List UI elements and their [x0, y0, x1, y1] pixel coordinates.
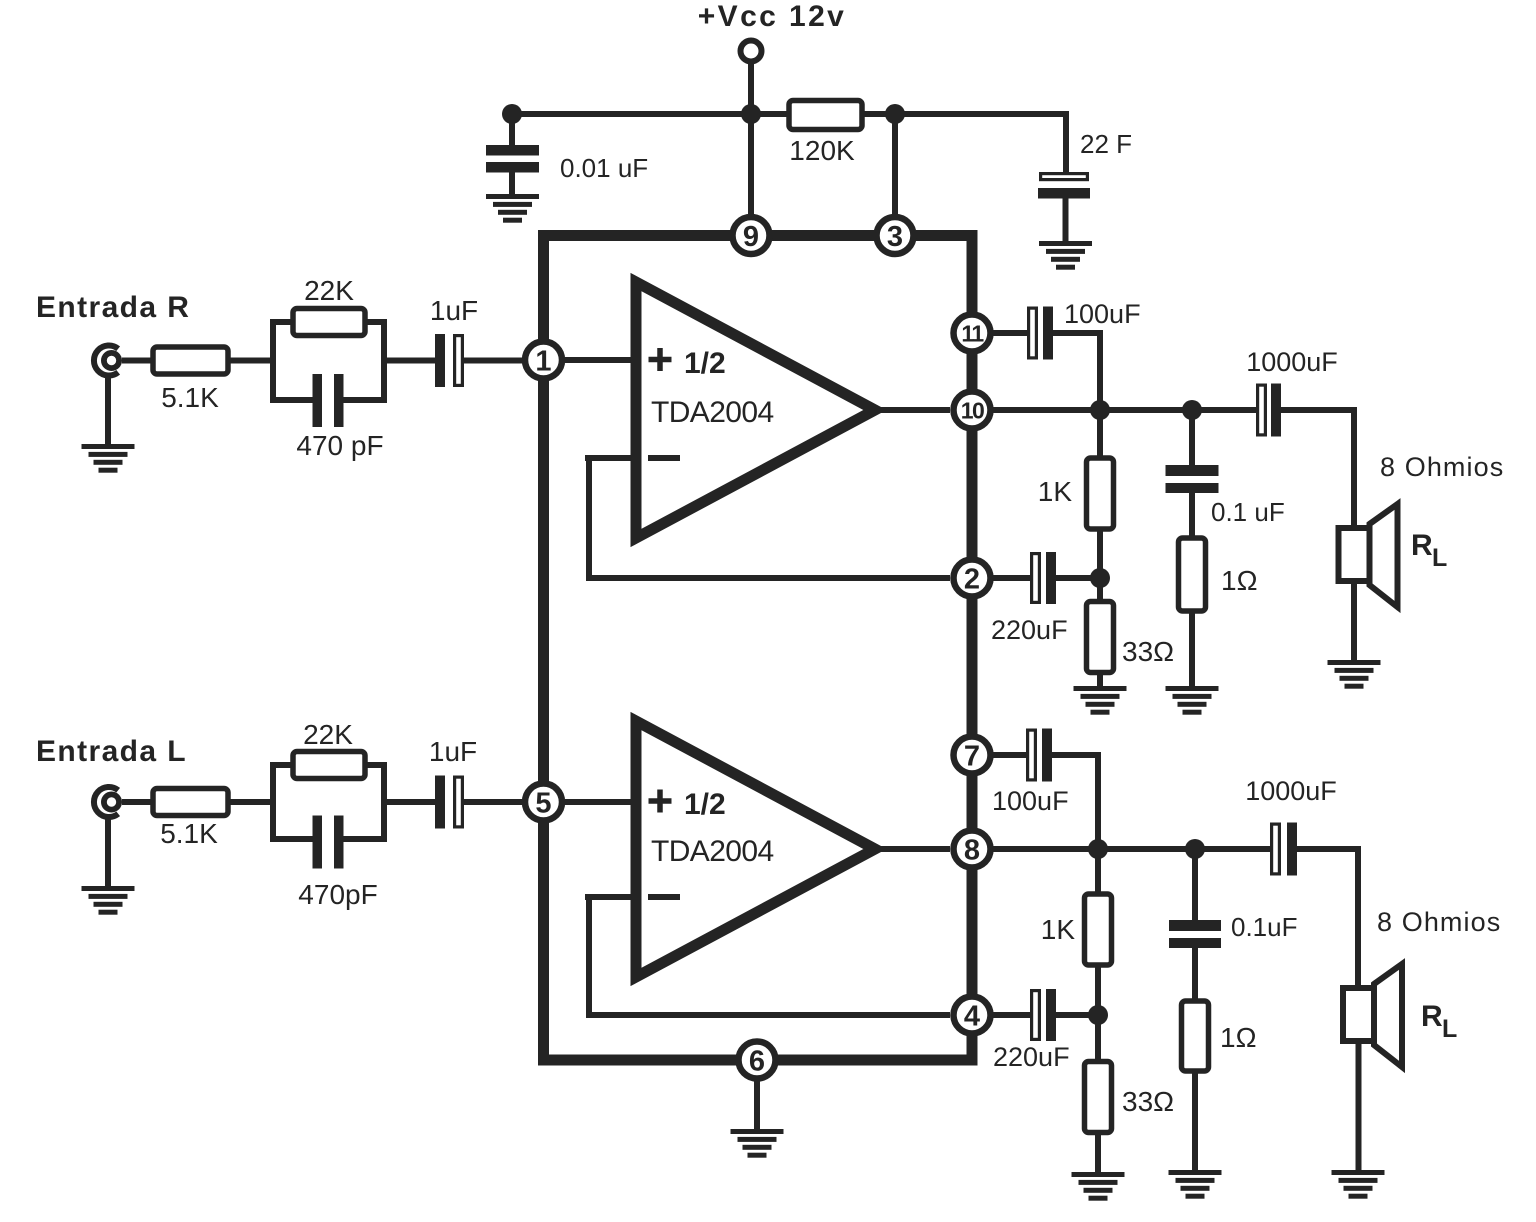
wire 100uF to corner: [1053, 330, 1100, 336]
wire 5.1K to RC block: [228, 358, 276, 364]
svg-text:1000uF: 1000uF: [1245, 776, 1337, 806]
svg-text:10: 10: [961, 398, 984, 424]
svg-text:R: R: [1411, 529, 1433, 562]
wire pin 4 to 220uF: [990, 1012, 1033, 1018]
pin 5: [525, 784, 562, 821]
svg-text:220uF: 220uF: [991, 615, 1068, 645]
op-amp U1b triangle: [636, 721, 875, 977]
junction pin8-100uF/1K: [1088, 839, 1108, 859]
resistor 33ohm (upper): [1087, 578, 1114, 690]
pin 2: [954, 560, 991, 597]
resistor 5.1K (R): [153, 347, 228, 374]
op-amp U1a triangle: [636, 282, 875, 538]
wire 100uF to corner (lower): [1052, 752, 1098, 758]
wire to pin 9: [748, 114, 754, 222]
svg-text:5: 5: [535, 788, 551, 820]
capacitor 1uF (L): [435, 776, 462, 829]
wire corner down to output node: [1097, 330, 1103, 410]
svg-text:7: 7: [964, 741, 980, 773]
capacitor 0.1uF (lower): [1169, 920, 1221, 948]
capacitor 470pF (L): [313, 816, 344, 869]
wire RCA-L to 5.1K: [122, 799, 155, 805]
wire RCA-R to 5.1K: [122, 358, 155, 364]
capacitor 0.1uF (upper): [1166, 465, 1219, 493]
op-amp plus sign U1a: [649, 348, 672, 371]
wire block to 1uF (R): [384, 358, 435, 364]
node RC block right bar (L): [381, 762, 387, 842]
wire top rail right (R): [360, 319, 384, 325]
svg-text:0.1uF: 0.1uF: [1231, 912, 1298, 942]
wire 0.1uF to 1ohm (lower): [1192, 945, 1198, 1003]
wire pin5 to op-amp: [562, 799, 636, 805]
pin 7: [954, 737, 991, 774]
wire corner down to pin8 row: [1095, 752, 1101, 849]
resistor 22K (L): [293, 752, 365, 779]
ground speaker (upper): [1328, 660, 1381, 689]
svg-text:470 pF: 470 pF: [296, 430, 383, 461]
wire pin8 node to 0.1uF (lower): [1192, 849, 1198, 922]
wire top rail right (L): [360, 762, 384, 768]
wire minus input U1a: [585, 455, 631, 461]
wire 1000uF to speaker corner: [1281, 407, 1357, 413]
svg-text:470pF: 470pF: [298, 879, 377, 910]
pin 11: [954, 315, 991, 352]
ground 33ohm (upper): [1074, 686, 1127, 715]
wire RCA-R down: [105, 375, 111, 446]
ground speaker (lower): [1332, 1170, 1385, 1199]
svg-text:2: 2: [964, 564, 980, 596]
wire feedback vertical U1a: [586, 455, 592, 581]
svg-text:120K: 120K: [789, 135, 855, 166]
wire pin 6 to ground: [754, 1078, 760, 1131]
ground 22F: [1039, 241, 1092, 270]
ground RCA R: [82, 444, 135, 473]
wire 220uF to junction: [1056, 575, 1100, 581]
ground 1ohm (upper): [1166, 686, 1219, 715]
node RC block left bar (R): [270, 319, 276, 403]
wire block to 1uF (L): [384, 799, 435, 805]
wire minus input U1b: [585, 894, 631, 900]
wire down to speaker (upper): [1351, 407, 1357, 528]
wire RCA-L down: [105, 817, 111, 888]
wire output node to 0.1uF: [1189, 410, 1195, 467]
resistor 1ohm (lower): [1182, 1001, 1209, 1071]
wire 1uF to pin 1: [463, 358, 543, 364]
op-amp plus sign U1b: [649, 790, 672, 813]
wire pin 7 to 100uF: [990, 752, 1029, 758]
svg-text:1/2: 1/2: [684, 788, 726, 821]
svg-text:22K: 22K: [304, 275, 354, 306]
wire to pin 3: [892, 114, 898, 222]
svg-text:1Ω: 1Ω: [1220, 1022, 1257, 1053]
wire output U1b to pin 8: [875, 846, 950, 852]
power terminal +Vcc: [741, 41, 762, 62]
wire 220uF to junction (lower): [1056, 1012, 1098, 1018]
op-amp minus sign U1a: [648, 455, 680, 461]
svg-text:0.1 uF: 0.1 uF: [1211, 497, 1285, 527]
wire 5.1K to RC block (L): [228, 799, 276, 805]
RCA connector R: [94, 346, 119, 376]
resistor 1K (lower): [1085, 849, 1112, 1018]
wire bottom rail right (L): [341, 836, 384, 842]
junction pin2-1K-33ohm: [1090, 568, 1110, 588]
svg-text:100uF: 100uF: [992, 786, 1069, 816]
ground 1ohm (lower): [1169, 1170, 1222, 1199]
junction bus-0.01uF: [502, 104, 522, 124]
ground 0.01uF: [486, 194, 539, 223]
svg-text:6: 6: [749, 1046, 765, 1078]
wire feedback to pin 2: [589, 575, 950, 581]
svg-text:1Ω: 1Ω: [1221, 565, 1258, 596]
svg-text:1000uF: 1000uF: [1246, 347, 1338, 377]
svg-text:8: 8: [964, 835, 980, 867]
junction bus-pin9: [741, 104, 761, 124]
junction output-0.1uF: [1182, 400, 1202, 420]
svg-text:1K: 1K: [1041, 914, 1076, 945]
IC TDA2004 boundary box: [544, 236, 973, 1061]
svg-text:1K: 1K: [1038, 476, 1073, 507]
svg-text:8 Ohmios: 8 Ohmios: [1377, 907, 1501, 937]
node RC block right bar (R): [381, 319, 387, 403]
svg-text:8 Ohmios: 8 Ohmios: [1380, 452, 1504, 482]
junction bus-pin3: [885, 104, 905, 124]
svg-text:5.1K: 5.1K: [160, 818, 218, 849]
speaker RL (lower): [1343, 964, 1402, 1067]
svg-text:Entrada R: Entrada R: [36, 291, 190, 324]
ground pin 6: [731, 1129, 784, 1158]
wire 1uF to pin 5: [463, 799, 543, 805]
wire pin 2 to 220uF: [990, 575, 1033, 581]
wire 1ohm to ground (lower): [1192, 1071, 1198, 1174]
junction output-100uF/1K: [1090, 400, 1110, 420]
svg-text:9: 9: [743, 221, 759, 253]
wire pin 11 to 100uF: [990, 330, 1030, 336]
speaker RL (upper): [1339, 504, 1398, 607]
wire down to speaker (lower): [1355, 846, 1361, 988]
capacitor 1uF (R): [435, 334, 462, 387]
wire bus corner to 22F: [1063, 111, 1069, 174]
junction pin8-0.1uF: [1185, 839, 1205, 859]
wire top rail left (R): [273, 319, 298, 325]
svg-text:1/2: 1/2: [684, 347, 726, 380]
svg-text:22K: 22K: [303, 719, 353, 750]
wire speaker to ground (upper): [1351, 581, 1357, 662]
wire output U1a to pin 10: [875, 407, 950, 413]
op-amp minus sign U1b: [648, 894, 680, 900]
svg-text:L: L: [1442, 1015, 1457, 1043]
ground 33ohm (lower): [1072, 1172, 1125, 1201]
label RL (upper): [1411, 529, 1447, 572]
capacitor 1000uF (lower): [1272, 823, 1297, 876]
pin 9: [733, 217, 770, 254]
wire bus left: [512, 111, 792, 117]
pin 10: [954, 392, 991, 429]
junction pin4-1K-33ohm: [1088, 1005, 1108, 1025]
pin 6: [739, 1042, 776, 1079]
wire 0.1uF to 1ohm (upper): [1189, 493, 1195, 540]
label RL (lower): [1421, 1000, 1457, 1043]
svg-text:0.01 uF: 0.01 uF: [560, 153, 648, 183]
wire 1ohm to ground (upper): [1189, 611, 1195, 690]
wire 1000uF to speaker corner (lower): [1297, 846, 1358, 852]
capacitor 220uF (upper): [1032, 552, 1056, 604]
resistor 22K (R): [293, 309, 365, 336]
svg-text:TDA2004: TDA2004: [651, 835, 774, 868]
svg-text:TDA2004: TDA2004: [651, 396, 774, 429]
svg-text:1: 1: [535, 346, 551, 378]
svg-text:33Ω: 33Ω: [1122, 636, 1174, 667]
capacitor 220uF (lower): [1032, 989, 1056, 1041]
resistor 5.1K (L): [153, 789, 228, 816]
wire bottom rail right (R): [341, 397, 384, 403]
pin 8: [954, 831, 991, 868]
wire bus right: [859, 111, 1066, 117]
svg-text:Entrada L: Entrada L: [36, 735, 187, 768]
svg-text:11: 11: [961, 321, 984, 347]
wire top rail left (L): [273, 762, 298, 768]
capacitor 0.01uF: [486, 114, 539, 196]
RCA connector L: [94, 787, 119, 817]
wire feedback to pin 4: [589, 1012, 950, 1018]
svg-text:220uF: 220uF: [993, 1042, 1070, 1072]
svg-text:5.1K: 5.1K: [161, 382, 219, 413]
svg-text:4: 4: [964, 1001, 980, 1033]
capacitor 100uF (upper): [1029, 307, 1053, 360]
resistor 33ohm (lower): [1085, 1015, 1112, 1176]
capacitor 1000uF (upper): [1258, 384, 1281, 437]
svg-text:22 F: 22 F: [1080, 129, 1132, 159]
wire speaker to ground (lower): [1356, 1041, 1362, 1172]
svg-text:3: 3: [887, 221, 903, 253]
svg-text:R: R: [1421, 1000, 1443, 1033]
pin 1: [525, 342, 562, 379]
wire pin 10 output row: [990, 407, 1258, 413]
capacitor 100uF (lower): [1028, 729, 1052, 782]
wire bottom rail left (R): [273, 397, 315, 403]
pin 3: [877, 217, 914, 254]
wire pin1 to op-amp: [562, 357, 636, 363]
resistor 1ohm (upper): [1179, 538, 1206, 611]
svg-text:100uF: 100uF: [1064, 299, 1141, 329]
wire feedback vertical U1b: [586, 894, 592, 1018]
svg-text:L: L: [1432, 544, 1447, 572]
ground RCA L: [82, 886, 135, 915]
resistor 1K (upper): [1087, 410, 1114, 581]
capacitor 470pF (R): [313, 374, 344, 427]
node RC block left bar (L): [270, 762, 276, 842]
capacitor 22F electrolytic: [1038, 174, 1090, 243]
wire Vcc to bus: [748, 61, 754, 117]
svg-text:33Ω: 33Ω: [1122, 1086, 1174, 1117]
svg-text:1uF: 1uF: [430, 295, 478, 326]
svg-text:1uF: 1uF: [429, 736, 477, 767]
pin 4: [954, 997, 991, 1034]
resistor 120K: [789, 101, 862, 130]
svg-text:+Vcc 12v: +Vcc 12v: [698, 0, 847, 33]
wire bottom rail left (L): [273, 836, 315, 842]
wire pin 8 output row: [990, 846, 1272, 852]
